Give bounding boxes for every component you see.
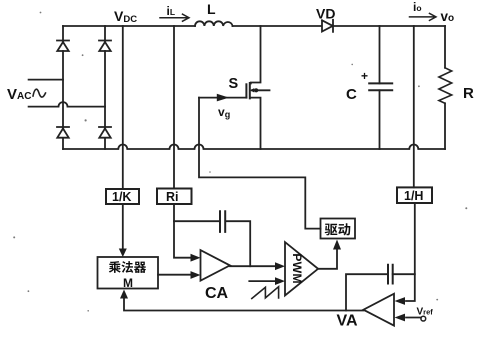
block 1/K box bbox=[106, 189, 139, 204]
resistor R bottom wire bbox=[444, 103, 446, 149]
wire Vo sense line to 1/H bbox=[413, 26, 415, 187]
arrowhead 1/K to M bbox=[119, 249, 127, 258]
block multiplier M box bbox=[98, 257, 159, 289]
wire VDC sense line down to 1/K bbox=[122, 26, 124, 189]
svg-text:VA: VA bbox=[337, 313, 358, 330]
wire M output to CA input bbox=[158, 274, 190, 276]
wire top rail middle segment bbox=[233, 25, 322, 27]
arrowhead 1/H to VA bbox=[395, 297, 406, 305]
wire top rail right segment bbox=[333, 25, 445, 27]
wire VA feedback cap right bbox=[393, 273, 415, 275]
transistor S gate bar bbox=[245, 84, 247, 97]
capacitor C plates bbox=[369, 83, 392, 90]
svg-text:CA: CA bbox=[205, 285, 229, 302]
wire VA feedback cap left bbox=[346, 274, 388, 310]
label driver text 驱动 bbox=[325, 223, 351, 235]
svg-text:1/K: 1/K bbox=[112, 190, 131, 204]
arrowhead mosfet body bbox=[250, 88, 254, 92]
arrow io current bbox=[410, 13, 437, 20]
terminal Vref circle bbox=[421, 316, 426, 321]
svg-text:PWM: PWM bbox=[290, 253, 304, 284]
block driver box bbox=[321, 219, 356, 239]
source VAC sine symbol bbox=[33, 89, 46, 97]
diode D1 (bridge upper-left) bbox=[57, 41, 69, 52]
capacitor VA feedback plates bbox=[388, 265, 393, 284]
inductor L winding bbox=[195, 21, 233, 26]
svg-text:S: S bbox=[229, 76, 239, 92]
wire Ri output down and right to CA input bbox=[174, 204, 190, 258]
svg-text:C: C bbox=[346, 86, 357, 103]
capacitor CA feedback plates bbox=[220, 211, 225, 232]
wire CA output to PWM input bbox=[230, 265, 276, 267]
arrowhead Ri to CA bbox=[191, 254, 201, 262]
arrowhead CA to PWM bbox=[275, 262, 285, 270]
wire PWM output to driver bbox=[318, 250, 337, 269]
wire 1/H output down to VA input bbox=[406, 203, 415, 301]
wire VAC lower lead with hop over left branch bbox=[29, 102, 105, 107]
label multiplier text 乘法器 bbox=[109, 261, 146, 273]
arrowhead Vref to VA bbox=[395, 314, 406, 322]
wire VAC upper lead bbox=[29, 79, 63, 81]
svg-text:Vref: Vref bbox=[417, 306, 434, 317]
arrowhead vg gate bbox=[217, 94, 229, 102]
wire bottom rail with hops bbox=[63, 145, 445, 150]
bridge left branch wire bbox=[62, 26, 64, 149]
capacitor C bottom wire bbox=[379, 90, 381, 149]
arrow iL current bbox=[160, 14, 189, 21]
svg-text:VD: VD bbox=[316, 6, 335, 22]
arrowhead VA bottom into M bbox=[120, 290, 128, 299]
wire Vref lead bbox=[406, 317, 421, 319]
op-amp VA triangle bbox=[363, 294, 394, 326]
arrowhead PWM to driver bbox=[333, 240, 341, 250]
transistor S channel bars bbox=[249, 83, 251, 98]
wire VA output long line to M bbox=[124, 299, 363, 311]
diode VD bbox=[322, 20, 333, 32]
svg-text:Ri: Ri bbox=[166, 190, 179, 204]
block 1/H box bbox=[397, 187, 432, 203]
svg-text:L: L bbox=[207, 1, 216, 17]
wire drive route from driver to gate bbox=[199, 98, 321, 229]
dot mosfet body junction bbox=[254, 88, 258, 92]
diode D4 (bridge lower-right) bbox=[99, 127, 111, 138]
wire 1/K output down to multiplier bbox=[122, 204, 124, 250]
svg-text:iL: iL bbox=[167, 4, 176, 18]
transistor S drain wire bbox=[251, 26, 261, 84]
capacitor C top wire bbox=[379, 26, 381, 83]
wire CA feedback cap right side down to CA output bbox=[225, 221, 250, 266]
diode D2 (bridge upper-right) bbox=[99, 41, 111, 52]
svg-text:io: io bbox=[413, 0, 422, 14]
bridge right branch wire bbox=[104, 26, 106, 149]
wire top rail left segment bbox=[63, 25, 195, 27]
transistor S body line and source bbox=[251, 90, 270, 149]
sawtooth ramp symbol bbox=[252, 287, 279, 299]
diode D3 (bridge lower-left) bbox=[57, 127, 69, 138]
svg-text:M: M bbox=[123, 276, 133, 290]
wire branch to CA feedback capacitor bbox=[174, 220, 220, 222]
op-amp PWM triangle bbox=[285, 242, 318, 295]
block Ri box bbox=[157, 189, 192, 205]
svg-text:+: + bbox=[361, 69, 368, 83]
resistor R top wire bbox=[444, 26, 446, 68]
arrowhead M to CA bbox=[191, 271, 201, 279]
arrowhead ramp to PWM bbox=[275, 277, 285, 285]
wire Ri sense line from top rail down to Ri bbox=[173, 26, 175, 189]
resistor R zigzag bbox=[439, 68, 452, 104]
svg-text:R: R bbox=[463, 85, 474, 102]
op-amp CA triangle bbox=[201, 250, 230, 281]
wire gate line bbox=[199, 97, 246, 99]
svg-text:1/H: 1/H bbox=[404, 189, 423, 203]
wire PWM ramp input bbox=[249, 280, 277, 282]
